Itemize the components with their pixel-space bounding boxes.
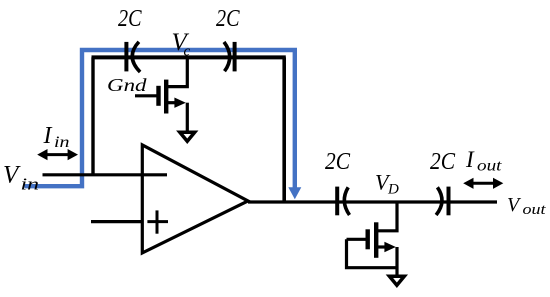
M2 gate-to-source loop wire: [347, 239, 398, 267]
capacitor C2 (2C top-right): [224, 42, 235, 72]
node Iin double arrow: [42, 153, 73, 156]
M1 gate bar: [156, 86, 160, 106]
capacitor C4 (2C bottom-right): [436, 187, 448, 216]
wire input Vin to inverting input: [43, 173, 168, 176]
svg-text:2C: 2C: [118, 6, 142, 32]
M2 gate lead: [347, 238, 368, 241]
svg-text:D: D: [387, 182, 399, 198]
svg-text:c: c: [184, 44, 191, 60]
svg-text:2C: 2C: [216, 6, 240, 32]
svg-text:I: I: [465, 147, 475, 172]
svg-text:in: in: [54, 134, 70, 151]
svg-text:out: out: [523, 202, 547, 218]
capacitor C1 (2C top-left): [126, 42, 140, 72]
ground (top): [180, 132, 195, 141]
transistor M2 (bottom, diode-connected at VD): [347, 202, 398, 277]
M1 source lead: [166, 101, 178, 104]
wire output: [248, 200, 497, 203]
wire right feedback vertical: [282, 57, 286, 202]
M2 source riser down: [395, 247, 398, 277]
wire blue highlighted current path: [25, 50, 295, 189]
M1 channel bar: [164, 80, 168, 114]
M2 source arrow: [384, 242, 395, 252]
capacitor C3 (2C bottom-left): [337, 187, 349, 216]
svg-text:2C: 2C: [430, 149, 456, 175]
node Iout double arrow: [468, 182, 499, 185]
M1 drain lead: [166, 57, 187, 86]
M1 source arrow: [174, 98, 185, 108]
M2 drain lead and riser to VD node: [376, 202, 397, 231]
svg-text:2C: 2C: [325, 149, 351, 175]
op-amp plus sign: [147, 210, 168, 233]
svg-text:I: I: [43, 123, 53, 149]
M2 gate bar: [366, 229, 370, 249]
transistor M1 (top, gate to Gnd): [135, 57, 187, 132]
M2 source lead: [376, 245, 388, 248]
node blue arrowhead into op-amp output: [288, 187, 301, 199]
wire non-inverting input: [91, 220, 142, 223]
ground (bottom): [389, 276, 404, 285]
M2 channel bar: [374, 222, 378, 257]
op-amp U1 triangle: [142, 145, 248, 253]
wire top feedback horizontal: [92, 55, 286, 59]
wire left feedback vertical: [91, 57, 94, 174]
svg-text:in: in: [21, 175, 40, 194]
M1 gate lead: [135, 94, 159, 97]
M1 source riser to ground: [186, 103, 189, 133]
svg-text:Gnd: Gnd: [107, 75, 148, 95]
svg-text:out: out: [477, 158, 502, 175]
